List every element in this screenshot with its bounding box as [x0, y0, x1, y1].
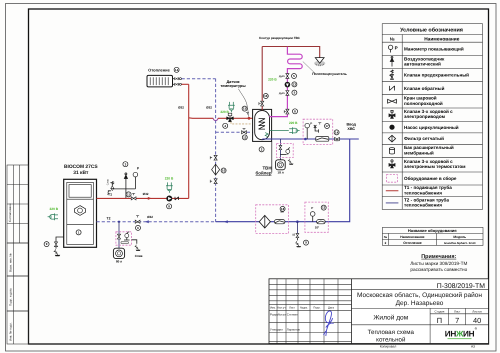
svg-text:220 В: 220 В — [50, 207, 59, 211]
legend row 7: насос — [389, 125, 394, 130]
svg-text:7: 7 — [455, 316, 459, 325]
legend row 12: Т1 — [386, 190, 399, 192]
cold water line B1 (solid blue) — [262, 138, 358, 140]
svg-text:220 В: 220 В — [220, 110, 229, 114]
wire T2 boiler return (blue dashed) — [97, 221, 216, 223]
main T1 wire to tank (red) with hop — [189, 117, 214, 120]
svg-text:Утвердил: Утвердил — [270, 328, 283, 332]
svg-text:Насос циркуляционный: Насос циркуляционный — [404, 125, 459, 130]
radiator supply pipe (red) — [173, 83, 183, 85]
svg-text:Т1: Т1 — [108, 193, 112, 197]
safety valve SV2 — [121, 232, 130, 244]
svg-text:Датчик: Датчик — [226, 80, 239, 84]
svg-text:P: P — [311, 206, 313, 210]
node 16 — [263, 94, 268, 99]
DHW tank (boiler indirect) — [253, 109, 272, 141]
valve after unit — [335, 137, 340, 140]
svg-text:Стадия: Стадия — [434, 310, 444, 314]
svg-text:Фильтр сетчатый: Фильтр сетчатый — [404, 136, 444, 141]
expansion tank 80l — [113, 248, 124, 263]
node 3 — [123, 162, 128, 167]
strainer F1 — [212, 164, 220, 175]
node 10 — [221, 168, 226, 173]
svg-text:17: 17 — [325, 124, 329, 128]
svg-text:Подп. и дата: Подп. и дата — [8, 288, 12, 306]
pump P2 recirculation — [285, 82, 291, 88]
node 2 (tank) — [259, 147, 264, 152]
svg-text:Ду15: Ду15 — [279, 92, 285, 95]
radiator Отопление — [147, 68, 173, 87]
node 8 — [167, 204, 172, 209]
svg-text:Ø32: Ø32 — [178, 106, 184, 110]
left margin cell: Взам. инв. № — [7, 243, 29, 276]
svg-text:Подп.: Подп. — [313, 307, 320, 310]
water meter unit box — [256, 205, 289, 234]
svg-text:Слив: Слив — [106, 179, 109, 186]
water inlet unit box (right) — [303, 119, 333, 144]
svg-text:П-308/2019-ТМ: П-308/2019-ТМ — [437, 283, 485, 290]
valve recirc upper — [286, 74, 289, 79]
wire T1 boiler supply (red) — [97, 197, 189, 199]
svg-text:12: 12 — [243, 136, 247, 140]
svg-text:Взам. инв. №: Взам. инв. № — [8, 253, 12, 272]
svg-text:16: 16 — [264, 94, 268, 98]
manometer in unit — [305, 121, 312, 139]
tank label leader — [271, 141, 273, 172]
right part of title block — [352, 289, 489, 343]
svg-text:Разработал: Разработал — [270, 312, 286, 316]
svg-text:бойлер: бойлер — [256, 170, 272, 175]
expansion vessel drop — [279, 139, 281, 160]
return flow arrow — [224, 220, 228, 223]
valve on T1 — [131, 197, 136, 200]
svg-text:Слив: Слив — [135, 254, 143, 258]
node 1 (boiler number) — [76, 230, 81, 235]
svg-text:Жилой дом: Жилой дом — [373, 314, 408, 321]
node 11 — [126, 192, 131, 197]
node 6 — [136, 225, 141, 230]
node 14 — [174, 67, 179, 72]
svg-text:31 кВт: 31 кВт — [73, 170, 89, 176]
node 15 on capillary — [242, 106, 247, 111]
svg-text:ХВС: ХВС — [347, 127, 355, 131]
valve in box — [117, 234, 120, 239]
pump P1 (boiler circuit) — [166, 196, 172, 202]
svg-text:Отопление: Отопление — [403, 241, 421, 245]
svg-text:Оборудование в сборе: Оборудование в сборе — [404, 176, 457, 181]
svg-text:№: № — [390, 37, 395, 42]
svg-text:Клапан обратный: Клапан обратный — [404, 86, 445, 91]
svg-text:Полотенцесушитель: Полотенцесушитель — [312, 72, 347, 76]
drain by box — [132, 240, 143, 258]
tank safety unit box — [277, 144, 294, 158]
valve recirc lower — [286, 91, 289, 96]
svg-text:теплоснабжения: теплоснабжения — [404, 203, 442, 208]
thermostatic capillary to tank (tan dashed) — [231, 122, 251, 124]
shower head (towel dryer outlet) — [314, 58, 325, 67]
svg-text:Дер. Назарьево: Дер. Назарьево — [396, 300, 444, 307]
svg-text:П: П — [437, 316, 442, 325]
pump 220V plug — [165, 177, 174, 193]
svg-text:электронным термостатом: электронным термостатом — [404, 164, 466, 169]
svg-text:Ø32: Ø32 — [147, 215, 153, 219]
junction to expansion tank — [118, 221, 120, 223]
svg-text:Клапан предохранительный: Клапан предохранительный — [404, 73, 469, 78]
temperature sensor capillary — [239, 89, 249, 117]
flow arrow T1 — [148, 197, 152, 200]
tank coil return branch (blue dashed) — [216, 131, 253, 133]
svg-text:18 л: 18 л — [278, 170, 284, 174]
svg-text:Условные обозначения: Условные обозначения — [400, 28, 463, 34]
svg-text:Примечания:: Примечания: — [421, 254, 456, 260]
manometer on group — [133, 166, 140, 189]
svg-text:BIOCOM 27CS: BIOCOM 27CS — [64, 164, 98, 170]
svg-text:Ввод: Ввод — [346, 123, 356, 127]
svg-text:Grundfos Alpha2 L 32-60: Grundfos Alpha2 L 32-60 — [444, 242, 476, 245]
legend row 4: клапан обратный — [389, 86, 394, 91]
legend row 6: клапан 3-х ходовой с электроприводом — [389, 110, 395, 118]
valve on T2 — [135, 220, 140, 223]
boiler power plug 220V — [48, 207, 59, 220]
angle valve in unit — [314, 125, 319, 133]
svg-text:Ø32: Ø32 — [206, 106, 212, 110]
svg-text:Ларионов: Ларионов — [287, 328, 301, 332]
svg-text:рассматривать совместно: рассматривать совместно — [410, 267, 467, 272]
strainer F2 — [259, 215, 270, 228]
svg-text:Изм.: Изм. — [270, 307, 276, 310]
svg-text:Ø32: Ø32 — [143, 192, 149, 196]
svg-text:10: 10 — [222, 169, 226, 173]
svg-text:13: 13 — [293, 83, 297, 87]
svg-text:полнопроходной: полнопроходной — [404, 101, 443, 106]
flow arrow T2 — [145, 220, 149, 223]
svg-text:Ду15: Ду15 — [279, 75, 285, 78]
svg-text:Листов: Листов — [472, 310, 482, 314]
DHW riser from tank top (dark red) — [261, 47, 263, 111]
left margin stamp: Согласовано grid — [7, 165, 29, 243]
svg-text:Лист: Лист — [289, 307, 296, 310]
svg-text:15: 15 — [243, 107, 247, 111]
svg-text:Инв. № подл.: Инв. № подл. — [8, 322, 12, 341]
svg-text:мембранный: мембранный — [404, 150, 434, 155]
svg-text:котельной: котельной — [376, 336, 406, 343]
meter on cold line — [316, 137, 329, 142]
legend row 9: бак расширительный — [389, 148, 394, 154]
svg-text:10°: 10° — [315, 225, 320, 229]
DHW expansion vessel 18l — [276, 160, 286, 175]
svg-text:Отопление: Отопление — [148, 68, 170, 73]
safety group riser — [112, 179, 135, 199]
recirculation loop top (dark red) — [262, 47, 320, 58]
junction dot cold/tank — [304, 138, 307, 141]
svg-text:13: 13 — [322, 206, 326, 210]
svg-text:Лист: Лист — [454, 310, 461, 314]
radiator return pipe (blue dashed) — [173, 78, 183, 80]
tank heater element (green) — [265, 133, 268, 137]
boiler BIOCOM 27CS — [64, 164, 99, 247]
junction + drain on cold line — [296, 220, 299, 223]
legend row 1: манометр — [388, 45, 397, 52]
boiler drain valve — [54, 237, 64, 256]
svg-text:14: 14 — [175, 68, 179, 72]
legend row 3: клапан предохранительный — [389, 70, 393, 80]
svg-text:температуры: температуры — [220, 84, 245, 88]
svg-text:14: 14 — [335, 131, 339, 135]
svg-text:40: 40 — [473, 316, 481, 325]
svg-text:ВК: ВК — [280, 211, 284, 214]
svg-text:Копировал: Копировал — [380, 345, 397, 349]
legend row 2: воздухоотводчик — [390, 56, 393, 66]
left margin cell: Подп. и дата — [7, 276, 29, 311]
safety valve on group — [107, 181, 114, 194]
left margin cell: Инв. № подл. — [7, 311, 29, 344]
svg-text:P: P — [310, 121, 312, 125]
svg-text:Манометр показывающий: Манометр показывающий — [404, 46, 464, 51]
svg-text:Контур рециркуляции ГВС: Контур рециркуляции ГВС — [259, 36, 300, 40]
svg-text:Кол.уч: Кол.уч — [277, 307, 286, 310]
valve upper on riser — [214, 155, 217, 160]
svg-text:Стенкин: Стенкин — [287, 312, 298, 316]
svg-text:220 В: 220 В — [289, 121, 298, 125]
node 12 — [242, 135, 247, 140]
valve recirc bottom — [286, 109, 289, 114]
legend row 11: оборудование в сборе — [386, 175, 397, 183]
svg-text:А3: А3 — [471, 345, 475, 349]
svg-text:автоматический: автоматический — [404, 62, 441, 67]
svg-text:ИНЖИН: ИНЖИН — [445, 330, 475, 339]
junction node to tank — [248, 117, 251, 120]
svg-text:220 В: 220 В — [268, 78, 277, 82]
manometer in reducer unit — [310, 206, 315, 222]
node 4 — [223, 123, 228, 128]
assembled unit box (boiler safety) — [116, 232, 132, 245]
svg-text:Согласовано: Согласовано — [8, 203, 12, 222]
valve on DHW riser — [261, 101, 264, 106]
svg-text:Наименование: Наименование — [400, 235, 424, 239]
cold inlet riser down — [216, 139, 350, 222]
towel coil (magenta meander) — [269, 47, 302, 117]
svg-text:Дата: Дата — [328, 307, 334, 310]
pressure reducer — [317, 220, 326, 224]
svg-text:Название оборудования: Название оборудования — [408, 228, 457, 233]
air vent on group — [124, 173, 127, 179]
valve lower on riser — [214, 179, 217, 184]
svg-text:№док.: №док. — [300, 307, 308, 310]
svg-text:Листы марки 308/2019-ТМ: Листы марки 308/2019-ТМ — [410, 261, 467, 266]
3-way valve with actuator — [227, 113, 234, 122]
svg-text:электроприводом: электроприводом — [404, 114, 446, 119]
legend row 5: кран шаровой — [388, 99, 397, 103]
pressure reducer unit box — [305, 202, 328, 232]
legend row 13: Т2 — [386, 202, 399, 204]
svg-text:220 В: 220 В — [165, 177, 174, 181]
legend row 10: клапан 3-х ходовой с электронным термостатом — [389, 160, 395, 168]
svg-text:80 л: 80 л — [116, 259, 122, 263]
riser red (radiator supply down to boiler T1) — [188, 84, 190, 198]
legend row 8: фильтр — [388, 135, 395, 142]
svg-text:теплоснабжения: теплоснабжения — [404, 190, 442, 195]
3-way plug 220V — [220, 102, 234, 114]
svg-text:11: 11 — [127, 193, 131, 197]
svg-text:Модель: Модель — [453, 235, 466, 239]
tank heater plug 220V — [269, 121, 299, 134]
check valve after pump — [175, 197, 179, 200]
svg-text:Наименование: Наименование — [424, 37, 460, 43]
svg-text:Тепловая схема: Тепловая схема — [368, 329, 415, 336]
svg-text:Московская область, Одинцовски: Московская область, Одинцовский район — [357, 292, 482, 299]
svg-text:P: P — [395, 45, 398, 50]
node 9 (boiler drain) — [44, 242, 49, 247]
safety valve SV3 — [286, 147, 290, 154]
radiator return riser (blue dashed vertical) — [215, 79, 217, 222]
signature (blue ink) — [324, 311, 334, 336]
water meter — [274, 220, 285, 224]
logo — [445, 327, 478, 340]
svg-text:Т2: Т2 — [107, 216, 111, 220]
